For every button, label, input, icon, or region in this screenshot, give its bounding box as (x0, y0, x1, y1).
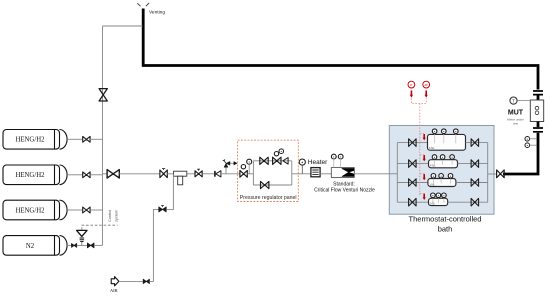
gauge G3 panel outlet (299, 159, 305, 165)
flow arrow into panel (234, 161, 238, 165)
pressure reducer funnel on N2 line (77, 230, 87, 236)
svg-text:1 NL: 1 NL (429, 182, 435, 186)
svg-text:AIR: AIR (110, 288, 119, 293)
valve VB1L bath row 1 inlet (409, 139, 417, 147)
wire: bath outlet segment (488, 173, 497, 175)
valve VB3R bath row 3 outlet (471, 179, 479, 187)
valve VB3L bath row 3 inlet (409, 179, 417, 187)
sonic nozzle bank NB1 (428, 134, 466, 150)
wire: valve V1 to manifold (90, 138, 102, 140)
wire: panel top branch (253, 160, 291, 162)
svg-text:P: P (410, 83, 412, 87)
svg-text:0.5L: 0.5L (430, 201, 436, 205)
wire: thick stub below MUT + flange pair (537, 122, 540, 128)
svg-text:test: test (513, 121, 518, 125)
wire: main line manifold to big valve (103, 173, 108, 175)
sensor P (red) (408, 81, 415, 88)
wire: N2 line segment (77, 244, 88, 246)
valve V5 manifold vent (vertical) (99, 89, 107, 101)
svg-text:T: T (512, 98, 515, 103)
valve VB2L bath row 2 inlet (409, 160, 417, 168)
wire: air to main line (166, 174, 173, 210)
valve V11 bath outlet (497, 170, 505, 178)
gauges on nozzle bank NB4 (432, 197, 434, 203)
valve V10 panel bottom (261, 181, 269, 188)
wire: control signal dashed to funnel (82, 225, 118, 230)
gauge G2 on regulator R2 (279, 149, 284, 154)
svg-text:N2: N2 (26, 243, 35, 250)
wire: panel bottom branch (253, 184, 291, 186)
wire: valve V2 to manifold (90, 174, 102, 176)
wire: bath row 1 left (397, 142, 427, 144)
meter under test box U-MUT (530, 100, 543, 122)
wire: gauge P1 stub (530, 138, 537, 140)
svg-text:Pressure regulator panel: Pressure regulator panel (240, 195, 297, 201)
wire: venturi to bath (354, 173, 397, 175)
red control arrow row 1 (423, 134, 425, 138)
gas cylinder B1 HENG/H2 (3, 130, 60, 150)
red arrow under sensor P (410, 91, 412, 96)
valve V4a N2 small (72, 244, 77, 248)
sonic nozzle bank NB3 (428, 179, 456, 187)
wire: bath left manifold (396, 143, 398, 203)
wire: bath row 2 right (458, 163, 488, 165)
wire: cylinder B3 to valve (67, 209, 83, 211)
wire: bath row 3 right (456, 182, 488, 184)
svg-text:4 NL: 4 NL (430, 164, 436, 168)
valve V4b N2 (87, 243, 94, 248)
valve V1 cylinder HENG/H2 (83, 136, 90, 142)
svg-text:Critical Flow Venturi Nozzle: Critical Flow Venturi Nozzle (314, 187, 375, 193)
valve V12 air (143, 279, 149, 283)
wire: bath row 4 right (448, 201, 488, 203)
wire: manifold vertical (102, 26, 104, 245)
gauges on nozzle bank NB2 (434, 159, 436, 165)
wire: T sensor to MUT box (517, 100, 530, 102)
gauge G5 venturi (338, 154, 343, 159)
svg-text:Venting: Venting (149, 10, 165, 16)
gauge G4 venturi (331, 154, 336, 159)
red control arrow row 2 (423, 155, 425, 159)
valve VB4R bath row 4 outlet (471, 198, 479, 206)
regulator R2 panel top (273, 157, 281, 164)
svg-text:HENG/H2: HENG/H2 (15, 172, 45, 179)
gas cylinder B3 HENG/H2 (3, 200, 60, 220)
wire: valve V8 to check valve (202, 173, 214, 175)
sonic nozzle bank NB2 (429, 160, 458, 168)
valve V9 panel top (260, 157, 268, 164)
sensor dP (red) (423, 81, 430, 88)
valve VB1R bath row 1 outlet (471, 139, 479, 147)
valve V6 main shutoff (107, 170, 119, 178)
red control arrow row 4 (423, 194, 425, 198)
gauges on nozzle bank NB1 (434, 133, 436, 143)
red arrow under sensor dP (425, 91, 427, 96)
gauges on nozzle bank NB3 (432, 178, 434, 184)
wire: manifold to vent stack (103, 25, 143, 27)
svg-text:Heater: Heater (308, 159, 328, 166)
gas cylinder B4 N2 (3, 236, 60, 256)
wire: angle valve feed to panel (230, 162, 234, 164)
wire: panel right riser (291, 161, 293, 185)
wire: heater to venturi (320, 173, 331, 175)
wire: air riser (149, 209, 158, 281)
gauge G1 on regulator R1 (247, 159, 252, 164)
wire: cylinder N2 to valve (67, 244, 71, 246)
wire: bath row 2 left (397, 163, 428, 165)
valve V13 air with handle (159, 207, 166, 212)
wire: valve V7 to filter (167, 173, 173, 175)
wire: R1 to riser (247, 173, 253, 175)
wire: bath row 4 left (397, 201, 428, 203)
regulator R1 (240, 170, 247, 177)
wire: gauge P2 stub (530, 144, 537, 146)
temperature sensor T at MUT (510, 97, 517, 104)
heater H1 (311, 168, 320, 177)
valve V8 with handle (195, 171, 202, 177)
svg-text:dP: dP (425, 83, 428, 87)
wire: panel outlet (292, 173, 311, 175)
check valve CV2 panel top (283, 158, 288, 165)
valve V3 cylinder HENG/H2 (83, 207, 90, 213)
panel dashed border (238, 140, 299, 201)
wire: bath row 3 left (397, 182, 428, 184)
wire: thick vent line (vent stack, top header, MUT drop) (143, 9, 538, 90)
wire: panel left riser (252, 161, 254, 185)
pressure gauge P1 on MUT outlet (525, 137, 530, 142)
pressure gauge P2 on MUT outlet (525, 143, 530, 148)
valve VB2R bath row 2 outlet (471, 160, 479, 168)
svg-text:HENG/H2: HENG/H2 (15, 137, 45, 144)
svg-text:bath: bath (438, 224, 453, 233)
wire: valve V3 to manifold (90, 209, 102, 211)
gas cylinder B2 HENG/H2 (3, 165, 60, 185)
svg-text:Thermostat-controlled: Thermostat-controlled (409, 214, 482, 223)
wire: bath row 1 right (466, 142, 488, 144)
venturi profile (342, 168, 354, 177)
wire: cylinder B2 to valve (67, 174, 83, 176)
thermostat bath box (389, 126, 494, 215)
air inlet arrow (111, 277, 119, 286)
svg-text:HENG/H2: HENG/H2 (15, 207, 45, 214)
wire: main line to valve V7 (119, 173, 160, 175)
svg-text:system: system (115, 210, 119, 222)
angle valve AV1 (224, 162, 230, 168)
valve V2 cylinder HENG/H2 (83, 172, 90, 178)
wire: check valve to panel (221, 173, 240, 175)
wire: thick line MUT down to bath outlet valve (503, 133, 538, 174)
venting symbol (137, 3, 149, 6)
wire: cylinder B1 to valve (67, 138, 83, 140)
filter F1 (174, 171, 187, 176)
valve VB4L bath row 4 inlet (409, 198, 417, 206)
svg-text:MUT: MUT (508, 110, 524, 117)
wire: bath right manifold (487, 143, 489, 203)
wire: bath inlet segment (389, 173, 397, 175)
wire: air to valve (119, 280, 143, 282)
wire: red dashed sensor links (411, 98, 426, 196)
wire: filter to valve V8 (187, 173, 195, 175)
check valve CV1 (214, 171, 216, 177)
svg-text:6 NL: 6 NL (429, 146, 435, 150)
valve V7 with handle (160, 170, 167, 178)
flange pair above MUT (533, 91, 543, 95)
standard venturi nozzle box (331, 168, 354, 178)
MUT internal rotor circles (535, 106, 539, 110)
red control arrow row 3 (423, 174, 425, 178)
svg-text:Control: Control (108, 210, 112, 222)
wire: branch riser to angle valve (225, 167, 227, 174)
sonic nozzle bank NB4 (429, 198, 448, 205)
wire: N2 to manifold (94, 244, 103, 246)
